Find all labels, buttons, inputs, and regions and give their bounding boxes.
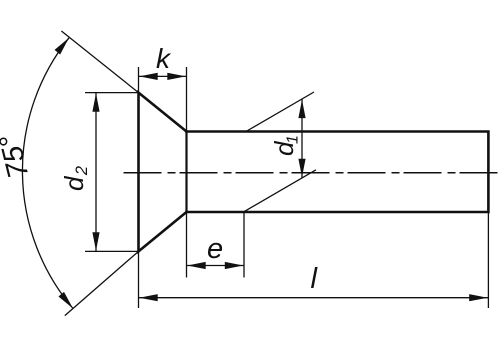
svg-text:75°: 75° [0, 131, 35, 181]
svg-text:d2: d2 [59, 166, 91, 191]
svg-text:l: l [311, 263, 319, 295]
svg-text:k: k [156, 43, 172, 74]
svg-text:e: e [207, 233, 223, 265]
svg-text:d1: d1 [269, 135, 302, 156]
